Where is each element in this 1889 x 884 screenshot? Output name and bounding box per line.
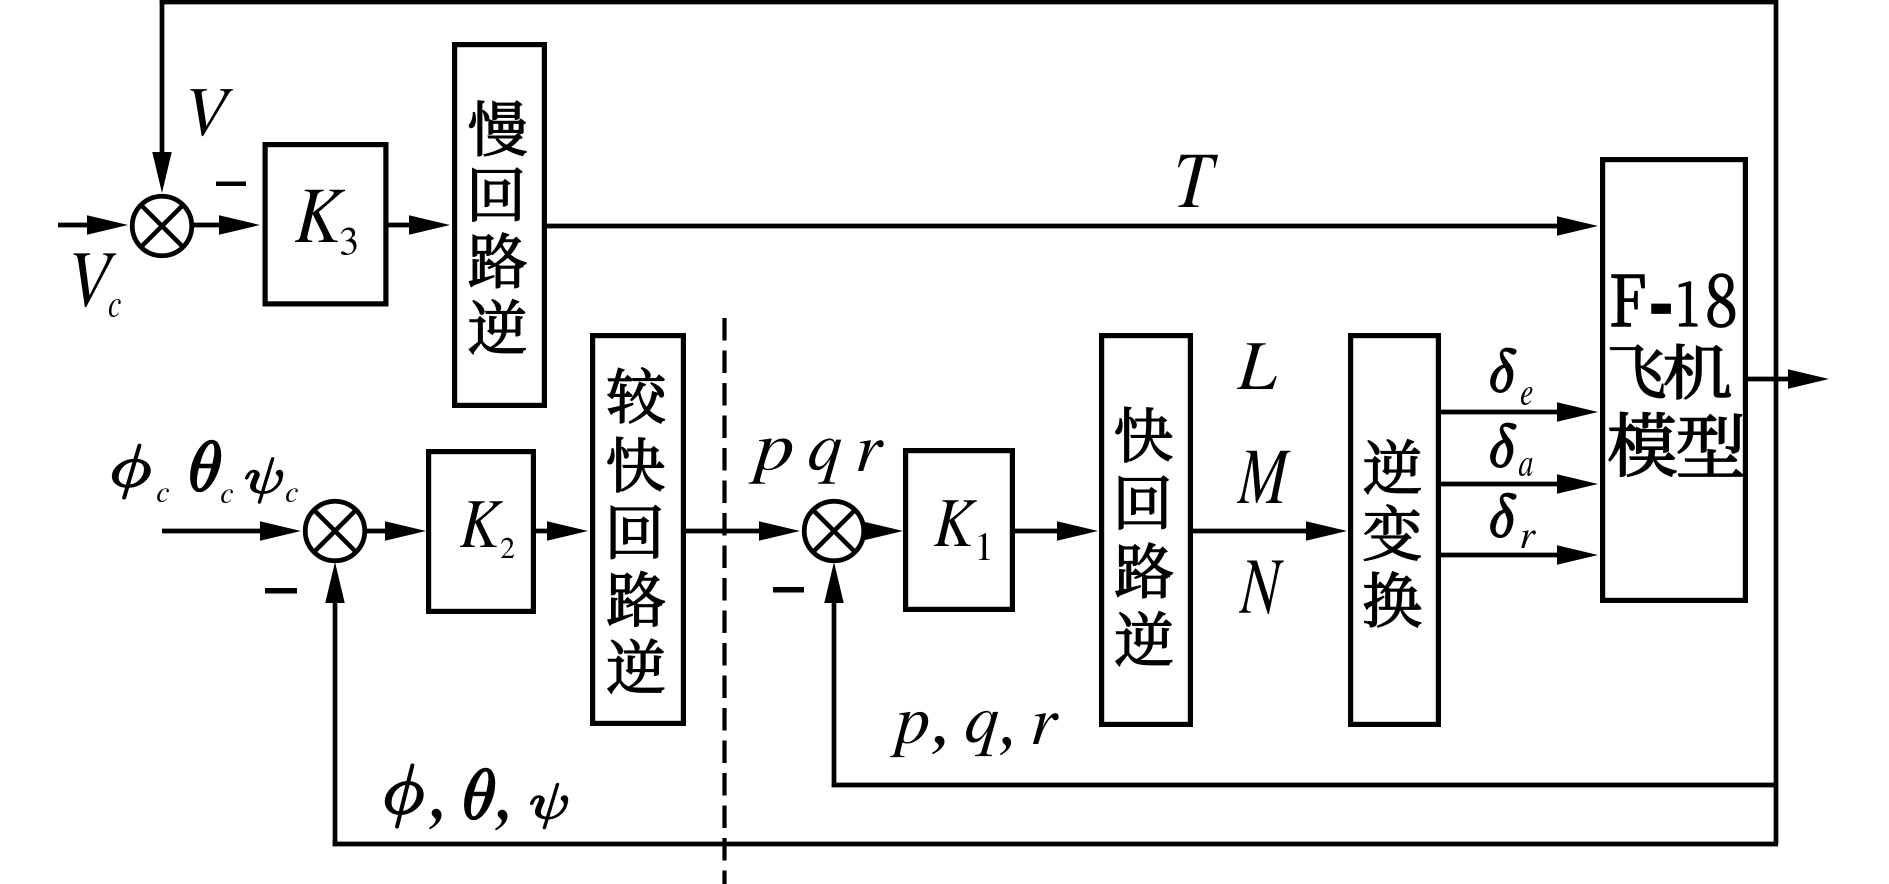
block K1 gain	[906, 451, 1013, 610]
label M	[1237, 451, 1290, 503]
label V	[190, 89, 233, 136]
wire right feedback vertical	[1774, 0, 1779, 844]
wire p q r feedback vertical	[832, 600, 837, 787]
arrowhead delta_r into F-18	[1557, 545, 1598, 565]
label L	[1237, 343, 1277, 389]
wire K3 to slow-loop-inverse	[388, 223, 418, 228]
arrowhead into S2	[260, 521, 301, 541]
block relatively-fast loop inverse (jiao-kuai-hui-lu-ni)	[593, 336, 684, 724]
arrowhead V into S1	[152, 152, 172, 193]
arrowhead into fast-loop-inverse	[1057, 521, 1098, 541]
arrowhead into slow-loop-inverse	[409, 215, 450, 235]
minus sign at S3	[773, 587, 804, 593]
block slow loop inverse (man-hui-lu-ni)	[455, 45, 545, 406]
label p, q, r feedback	[890, 711, 1059, 757]
arrowhead delta_a into F-18	[1557, 474, 1598, 494]
block inverse transform (ni-bian-huan)	[1351, 336, 1439, 725]
wire p q r feedback horizontal	[832, 783, 1778, 788]
minus sign at S2	[265, 588, 297, 594]
arrowhead output	[1788, 369, 1829, 389]
arrowhead p q r feedback into S3	[824, 562, 844, 603]
arrowhead T into F-18	[1557, 216, 1598, 236]
wire K2 to medium-loop-inverse	[536, 529, 552, 534]
label p q r	[749, 439, 884, 484]
label N	[1239, 561, 1284, 614]
block F-18 aircraft model	[1603, 160, 1746, 601]
label T	[1178, 155, 1218, 207]
wire delta_a	[1441, 482, 1564, 487]
label phi, theta, psi feedback	[386, 765, 567, 831]
wire Vc input	[58, 223, 95, 228]
wire delta_e	[1441, 410, 1564, 415]
arrowhead Vc input	[87, 215, 128, 235]
wire delta_r	[1441, 553, 1564, 558]
arrowhead into medium-loop-inverse	[547, 521, 588, 541]
wire LMN line	[1193, 529, 1312, 534]
wire S1 to K3	[194, 223, 228, 228]
arrowhead into K1	[862, 521, 903, 541]
arrowhead into K3	[219, 215, 260, 235]
wire S3 to K1	[866, 529, 872, 534]
arrowhead attitude feedback into S2	[325, 562, 345, 603]
label delta_r	[1491, 494, 1536, 548]
arrowhead into S3	[759, 521, 800, 541]
wire medium-loop-inverse to S3	[686, 529, 762, 534]
block K3 gain	[265, 145, 386, 304]
block fast loop inverse (kuai-hui-lu-ni)	[1102, 336, 1191, 725]
summing junction S2	[305, 501, 365, 561]
dashed separation line	[722, 318, 726, 884]
wire phi theta psi feedback vertical	[333, 600, 338, 846]
summing junction S3	[804, 501, 864, 561]
wire K1 to fast-loop-inverse	[1015, 529, 1064, 534]
wire attitude input	[162, 529, 266, 534]
wire S2 to K2	[367, 529, 392, 534]
block K2 gain	[429, 452, 534, 612]
wire T line to F-18	[547, 224, 1560, 229]
wire top feedback horizontal	[160, 0, 1778, 4]
arrowhead delta_e into F-18	[1557, 402, 1598, 422]
label delta_a	[1491, 424, 1533, 476]
wire output	[1746, 377, 1790, 382]
arrowhead into inverse-transform	[1306, 521, 1347, 541]
arrowhead into K2	[385, 521, 426, 541]
label delta_e	[1491, 349, 1532, 405]
wire phi theta psi feedback horizontal	[333, 842, 1778, 847]
label phi_c theta_c psi_c	[113, 441, 298, 503]
summing junction S1	[132, 196, 192, 256]
minus sign at S1	[216, 182, 246, 187]
wire V feedback drop	[160, 0, 165, 153]
label Vc	[73, 253, 120, 317]
